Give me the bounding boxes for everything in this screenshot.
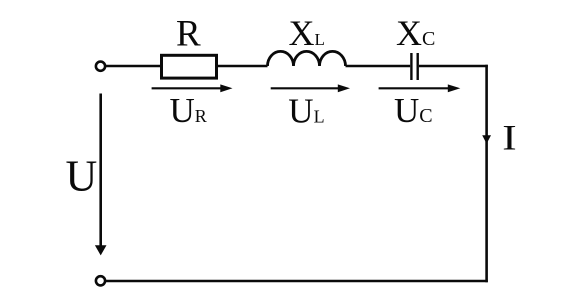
svg-text:U: U xyxy=(66,152,98,201)
svg-text:R: R xyxy=(176,13,201,54)
svg-text:I: I xyxy=(502,118,516,158)
